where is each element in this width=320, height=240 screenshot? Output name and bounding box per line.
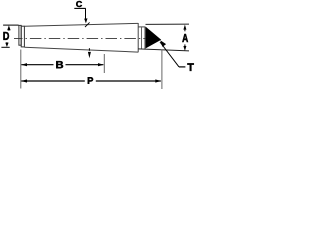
C letter bbox=[76, 1, 82, 7]
P left arrow bbox=[21, 79, 27, 82]
P right extension line (below cone tip) bbox=[161, 50, 163, 90]
dimension D bottom extension line bbox=[1, 46, 9, 48]
T leader horizontal tail bbox=[179, 66, 185, 68]
B dimension line right part bbox=[66, 64, 104, 66]
tang (left end) bbox=[19, 25, 21, 45]
T leader diagonal bbox=[160, 42, 179, 67]
dimension A top extension line bbox=[146, 23, 190, 25]
C leader line bbox=[85, 8, 87, 18]
P dimension line right part bbox=[96, 80, 161, 82]
gage arrow below bottom edge bbox=[88, 52, 91, 58]
neck top edge bbox=[138, 26, 145, 28]
cone point (solid black) bbox=[146, 27, 162, 49]
B dimension line left part bbox=[21, 64, 53, 66]
D up arrow bbox=[7, 25, 10, 30]
C arrowhead bbox=[84, 18, 87, 23]
B left arrow bbox=[21, 63, 27, 66]
P right arrow bbox=[155, 79, 161, 82]
background bbox=[0, 0, 199, 94]
taper body top edge bbox=[24, 23, 138, 26]
A down arrow bbox=[183, 46, 186, 51]
small end face section bbox=[21, 26, 24, 47]
P dimension line left part bbox=[21, 80, 85, 82]
C gage tick on top edge bbox=[85, 22, 90, 27]
A up arrow bbox=[183, 25, 186, 30]
B/P left extension line bbox=[20, 50, 22, 89]
neck end vertical bbox=[144, 27, 146, 49]
T leader arrowhead bbox=[160, 40, 166, 47]
C underline bbox=[74, 7, 85, 9]
centerline bbox=[14, 37, 155, 39]
B right arrow bbox=[98, 63, 104, 66]
dimension D top extension line bbox=[3, 24, 19, 26]
P letter bbox=[88, 77, 93, 83]
B letter bbox=[56, 61, 63, 68]
big end face bbox=[137, 23, 139, 52]
taper body bottom edge bbox=[24, 47, 138, 52]
D letter bbox=[3, 32, 9, 40]
dimension A bottom extension line (continues from neck bottom) bbox=[138, 49, 189, 51]
gage tick on bottom edge bbox=[88, 48, 90, 51]
T letter bbox=[187, 63, 193, 70]
A letter bbox=[182, 34, 188, 42]
B right extension line bbox=[103, 54, 105, 73]
D down arrow bbox=[5, 43, 8, 47]
tang slot hidden line bbox=[141, 27, 143, 49]
